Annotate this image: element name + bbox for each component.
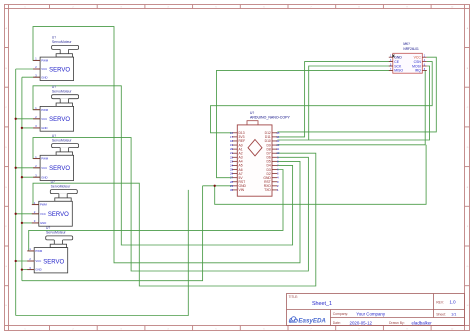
- svg-text:GND: GND: [41, 75, 47, 79]
- svg-text:PWM: PWM: [41, 157, 49, 161]
- svg-text:PWM: PWM: [40, 203, 48, 207]
- svg-text:ServoMoteur: ServoMoteur: [46, 231, 67, 235]
- svg-text:SERVO: SERVO: [43, 259, 64, 265]
- svg-text:SERVO: SERVO: [49, 117, 70, 123]
- svg-text:Drawn By:: Drawn By:: [389, 321, 405, 325]
- svg-text:ServoMoteur: ServoMoteur: [52, 138, 73, 142]
- svg-text:2020-05-12: 2020-05-12: [350, 321, 373, 326]
- svg-text:U?: U?: [52, 85, 56, 89]
- svg-text:ServoMoteur: ServoMoteur: [51, 184, 72, 188]
- svg-text:1.0: 1.0: [450, 300, 457, 305]
- svg-text:VCC: VCC: [41, 166, 47, 170]
- svg-text:MISO: MISO: [394, 69, 403, 73]
- svg-text:eladbalker: eladbalker: [412, 321, 433, 326]
- svg-text:VCC: VCC: [41, 67, 47, 71]
- svg-text:Sheet:: Sheet:: [436, 312, 446, 316]
- svg-text:G: G: [5, 266, 7, 268]
- svg-text:SCK: SCK: [394, 64, 402, 68]
- svg-text:Date:: Date:: [333, 321, 341, 325]
- svg-text:GND: GND: [394, 56, 402, 60]
- svg-text:G: G: [467, 266, 469, 268]
- svg-text:ServoMoteur: ServoMoteur: [52, 40, 73, 44]
- svg-text:NRF24L01: NRF24L01: [403, 47, 419, 51]
- svg-text:IRQ: IRQ: [415, 69, 421, 73]
- svg-text:VCC: VCC: [41, 117, 47, 121]
- svg-text:30: 30: [230, 188, 234, 192]
- svg-text:CSN: CSN: [414, 60, 422, 64]
- svg-text:VCC: VCC: [35, 259, 41, 263]
- svg-text:Sheet_1: Sheet_1: [312, 301, 332, 307]
- svg-text:SERVO: SERVO: [49, 67, 70, 73]
- svg-text:U?: U?: [46, 226, 50, 230]
- svg-text:VCC: VCC: [414, 56, 422, 60]
- svg-text:MK?: MK?: [403, 42, 410, 46]
- svg-text:ServoMoteur: ServoMoteur: [52, 90, 73, 94]
- svg-text:EasyEDA: EasyEDA: [298, 317, 326, 324]
- svg-text:PWM: PWM: [41, 108, 49, 112]
- svg-text:U?: U?: [52, 36, 56, 40]
- svg-text:SERVO: SERVO: [48, 212, 69, 218]
- svg-text:VCC: VCC: [40, 212, 46, 216]
- svg-text:U?: U?: [250, 111, 254, 115]
- svg-text:Company:: Company:: [333, 312, 349, 316]
- svg-text:GND: GND: [41, 126, 47, 130]
- svg-text:U?: U?: [52, 134, 56, 138]
- svg-text:VIN: VIN: [239, 188, 245, 192]
- svg-text:GND: GND: [41, 175, 47, 179]
- svg-text:PWM: PWM: [35, 249, 43, 253]
- svg-text:SERVO: SERVO: [49, 166, 70, 172]
- svg-text:REV:: REV:: [436, 300, 444, 304]
- svg-text:MOSI: MOSI: [412, 64, 421, 68]
- svg-text:CE: CE: [394, 60, 399, 64]
- svg-text:TITLE:: TITLE:: [289, 295, 299, 299]
- svg-text:Your Company: Your Company: [356, 312, 386, 317]
- svg-text:ARDUINO_NANO-COPY: ARDUINO_NANO-COPY: [250, 116, 290, 120]
- svg-text:TXD: TXD: [264, 188, 271, 192]
- svg-text:1/1: 1/1: [451, 312, 456, 316]
- svg-text:GND: GND: [40, 221, 46, 225]
- svg-text:GND: GND: [35, 268, 41, 272]
- svg-text:PWM: PWM: [41, 59, 49, 63]
- svg-text:U?: U?: [51, 180, 55, 184]
